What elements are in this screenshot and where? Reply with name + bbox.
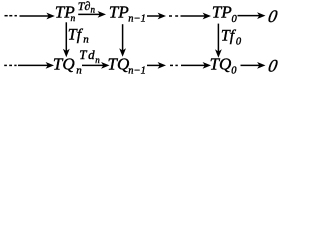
arrow into TQ_0 [181, 62, 211, 69]
arrow into TP_0 [181, 13, 212, 20]
label Tf_n [68, 26, 90, 45]
arrow from TP_0 to 0 [238, 12, 266, 19]
node 0 (bottom) [267, 56, 279, 76]
arrow into TQ_n [18, 62, 54, 69]
node 0 (top) [267, 6, 279, 26]
node TQ_n [53, 55, 82, 77]
svg-text:d: d [88, 47, 95, 62]
label T∂n [78, 0, 96, 14]
svg-text:TP: TP [109, 2, 129, 21]
svg-text:n−1: n−1 [128, 14, 146, 25]
svg-text:T: T [79, 47, 87, 62]
arrow out of TQ_n-1 [147, 62, 166, 69]
vertical arrow Tf_n from TP_n to TQ_n [63, 22, 70, 57]
svg-text:n: n [95, 55, 100, 65]
svg-text:n: n [76, 65, 82, 77]
svg-text:0: 0 [232, 14, 238, 25]
vertical arrow from TP_n-1 to TQ_n-1 [119, 24, 126, 57]
bottom-left continuation dots [4, 64, 16, 66]
arrow from TQ_0 to 0 [241, 62, 266, 69]
arrow T∂n from TP_n to TP_n-1 [78, 11, 106, 18]
arrow Td_n from TQ_n to TQ_n-1 [82, 62, 110, 69]
svg-text:T∂: T∂ [78, 0, 91, 13]
svg-text:n−1: n−1 [128, 66, 146, 77]
top middle continuation dots [169, 15, 178, 17]
svg-text:0: 0 [231, 66, 237, 77]
svg-text:TQ: TQ [53, 55, 75, 74]
svg-text:TQ: TQ [210, 55, 232, 74]
node TP_n [55, 2, 76, 24]
svg-text:TQ: TQ [108, 55, 130, 74]
bottom middle continuation dots [170, 64, 178, 66]
label Tf_0 [221, 28, 242, 48]
svg-text:TP: TP [212, 2, 232, 21]
node TP_0 [212, 2, 238, 24]
svg-text:n: n [91, 4, 96, 14]
svg-text:n: n [71, 14, 76, 24]
arrow into TP_n [20, 13, 55, 20]
svg-text:0: 0 [236, 37, 242, 48]
node TP_n-1 [109, 2, 146, 24]
top-left continuation dots [5, 15, 17, 17]
node TQ_0 [210, 55, 238, 77]
node TQ_n-1 [108, 55, 146, 77]
svg-text:n: n [83, 33, 89, 45]
vertical arrow Tf_0 from TP_0 to TQ_0 [215, 24, 222, 58]
arrow out of TP_n-1 [147, 13, 166, 20]
label Td_n [79, 47, 100, 65]
